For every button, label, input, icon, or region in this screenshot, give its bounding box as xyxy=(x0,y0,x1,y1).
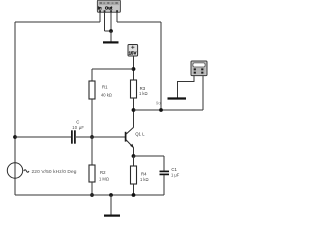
svg-text:R4: R4 xyxy=(141,171,147,176)
svg-text:C1: C1 xyxy=(171,167,177,172)
node ground stem junction on rail xyxy=(109,193,113,197)
wire emitter node to R4 xyxy=(133,156,135,166)
wire C1 bottom plate down to ground rail xyxy=(163,175,165,195)
wire In+ stub down from bode plotter xyxy=(99,12,101,22)
resistor R1 xyxy=(89,81,112,99)
wire In- to Out- join horizontal xyxy=(105,30,112,32)
node input coupling junction on left rail xyxy=(13,135,17,139)
svg-text:15V: 15V xyxy=(129,51,137,56)
wire Out+ stub down xyxy=(116,12,118,22)
ac source V2 xyxy=(7,163,77,178)
wire emitter down to emitter node xyxy=(133,148,135,156)
ground bar under bode plotter xyxy=(103,41,119,43)
wire top horizontal to right xyxy=(117,21,161,23)
wire left rail vertical xyxy=(14,22,16,195)
wire R2 bottom stub xyxy=(91,182,93,195)
node R2 bottom on ground rail xyxy=(90,193,94,197)
resistor R3 collector xyxy=(131,80,148,98)
node emitter junction xyxy=(132,154,136,158)
wire battery bottom to supply rail and R3 top xyxy=(133,56,135,80)
wire right vertical down to output node xyxy=(160,22,162,110)
wire capacitor C to base node xyxy=(76,136,92,138)
wire ground stem under bode plotter xyxy=(110,31,112,42)
wire bottom ground rail xyxy=(15,194,164,196)
wire R4 bottom stub xyxy=(133,184,135,195)
svg-text:9o: 9o xyxy=(156,100,161,105)
resistor R2 xyxy=(89,165,109,182)
wire R1 top stub xyxy=(91,69,93,81)
svg-text:C: C xyxy=(76,119,79,124)
svg-text:R2: R2 xyxy=(100,170,106,175)
wire collector up to output node xyxy=(133,110,135,128)
ground bar under multimeter xyxy=(168,97,187,99)
svg-text:Out: Out xyxy=(105,5,113,10)
svg-text:1 MΩ: 1 MΩ xyxy=(99,177,109,182)
node base bias junction xyxy=(90,135,94,139)
capacitor C 10uF xyxy=(72,119,85,143)
multimeter U1 icon xyxy=(191,61,207,76)
node supply rail junction xyxy=(132,67,136,71)
wire top-left horizontal to left rail xyxy=(15,21,100,23)
svg-text:40 kΩ: 40 kΩ xyxy=(101,92,112,97)
svg-text:220 V/50 kHz/0 Deg: 220 V/50 kHz/0 Deg xyxy=(32,169,77,175)
wire output node horizontal to multimeter xyxy=(134,109,204,111)
wire R3 bottom to output node xyxy=(133,98,135,110)
capacitor C1 1uF xyxy=(160,167,180,178)
wire In- stub down xyxy=(104,12,106,31)
bode plotter XBP1 icon body xyxy=(97,0,120,12)
wire C1 branch down to top plate xyxy=(163,156,165,171)
node R4 bottom on ground rail xyxy=(132,193,136,197)
wire supply rail horizontal to R1 xyxy=(92,68,134,70)
svg-text:In: In xyxy=(98,5,102,10)
svg-text:1 kΩ: 1 kΩ xyxy=(140,177,149,182)
wire left rail to capacitor C xyxy=(15,136,71,138)
battery V1 15V xyxy=(128,45,138,57)
node collector output junction xyxy=(132,108,136,112)
wire Out- stub down xyxy=(110,12,112,31)
wire multimeter left terminal to ground xyxy=(178,76,195,98)
transistor Q1 xyxy=(126,127,146,147)
svg-text:R1: R1 xyxy=(102,85,108,90)
wire base node down to R2 xyxy=(91,137,93,165)
wire emitter node to C1 branch xyxy=(134,155,165,157)
wire base node to transistor base xyxy=(92,136,125,138)
svg-text:1 µF: 1 µF xyxy=(171,173,180,178)
wire R1 bottom to base node xyxy=(91,99,93,137)
wire ground stem bottom xyxy=(110,195,112,215)
node output to bode Out junction xyxy=(159,108,163,112)
ground bar bottom xyxy=(104,215,120,217)
resistor R4 emitter xyxy=(131,166,149,184)
wire multimeter right terminal down to output wire xyxy=(202,76,204,110)
node junction bode minus terminals xyxy=(109,29,113,33)
svg-text:Q1 L: Q1 L xyxy=(135,131,145,136)
svg-text:1 kΩ: 1 kΩ xyxy=(139,91,148,96)
svg-text:10 µF: 10 µF xyxy=(72,125,84,130)
